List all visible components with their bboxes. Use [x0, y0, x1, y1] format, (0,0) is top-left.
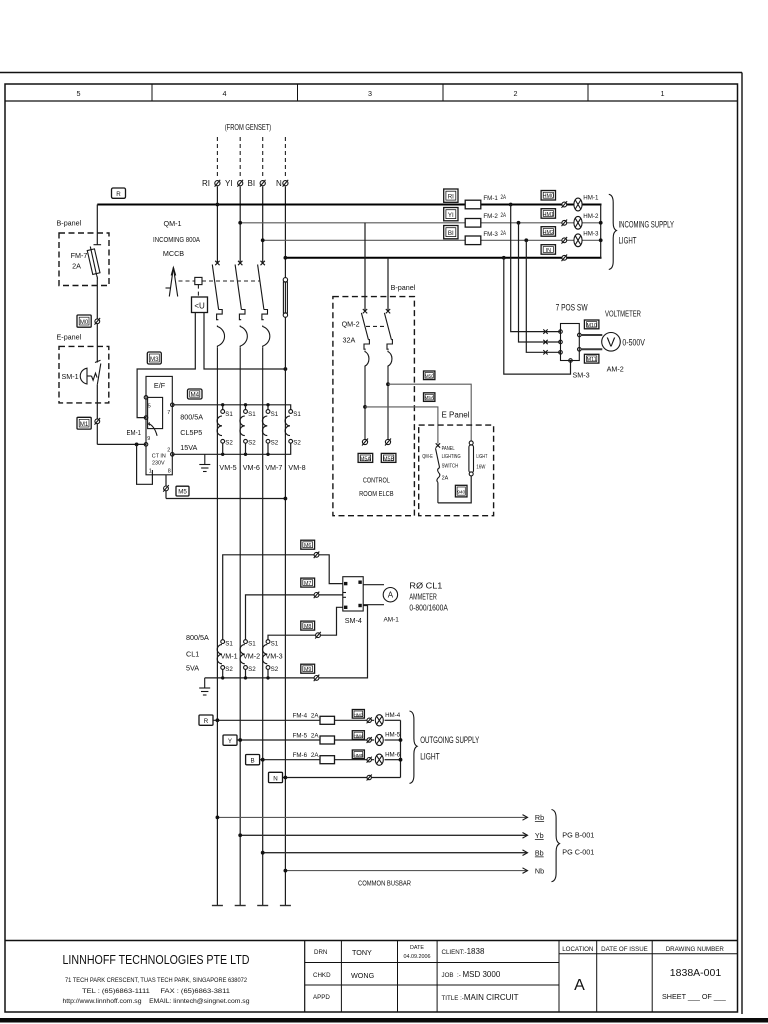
label INCOMING SUPPLY LIGHT	[619, 220, 675, 246]
wire busbar Yb	[240, 834, 527, 836]
wire S2 stub VM-3	[267, 669, 269, 678]
node connector on M7 wire	[314, 592, 320, 599]
svg-text:CT IN: CT IN	[152, 454, 166, 460]
svg-text:FM-7: FM-7	[71, 251, 88, 260]
svg-text:PANEL: PANEL	[442, 446, 455, 452]
svg-text:2: 2	[514, 89, 518, 98]
svg-text:TONY: TONY	[352, 948, 372, 957]
brace PG pages	[552, 810, 560, 882]
wire outgoing row Y after lamp	[385, 739, 401, 741]
svg-text:S2: S2	[225, 440, 233, 447]
svg-text:DRAWING NUMBER: DRAWING NUMBER	[666, 946, 725, 953]
voltmeter AM-2	[602, 333, 621, 352]
connector BI	[444, 226, 458, 239]
svg-text:M5A: M5A	[424, 395, 434, 400]
connector HM2	[541, 227, 555, 237]
svg-text:S1: S1	[248, 411, 256, 418]
wire outgoing row B after lamp	[385, 759, 401, 761]
connector HM4	[352, 731, 364, 740]
svg-text:ROOM ELCB: ROOM ELCB	[359, 489, 394, 498]
wire outgoing row N	[283, 777, 401, 779]
wire bus Y lamp out	[582, 222, 601, 224]
junction QM-2 pole1 switch branch	[363, 405, 367, 409]
ammeter AM-1	[383, 588, 397, 602]
svg-text:INCOMING SUPPLY: INCOMING SUPPLY	[619, 220, 675, 230]
relay EM-1 pin 1	[149, 469, 153, 475]
fuse FM-5	[320, 736, 335, 744]
wire light branch to E panel	[388, 384, 471, 441]
svg-text:RØ CL1: RØ CL1	[409, 582, 443, 591]
selector switch SM-4	[343, 577, 363, 611]
wire busbar Rb	[217, 816, 527, 818]
connector YI	[444, 208, 458, 221]
wire phase B upper	[262, 187, 264, 264]
svg-text:COMMON BUSBAR: COMMON BUSBAR	[358, 879, 411, 888]
node R connector box top left	[112, 188, 126, 198]
node connector on M8 wire	[315, 632, 321, 639]
svg-text:2A: 2A	[311, 713, 319, 720]
wire M8 from VM-3 S1 to SM-4	[268, 607, 343, 639]
junction return bus HM-2	[599, 221, 603, 225]
CT VM-1	[217, 640, 237, 673]
svg-text:HM1: HM1	[543, 212, 554, 218]
junction bus R phase R	[216, 203, 220, 207]
svg-text:YI: YI	[225, 179, 233, 188]
svg-text:S2: S2	[248, 666, 256, 673]
svg-text:AM-2: AM-2	[607, 365, 624, 374]
contact x feeder R	[543, 329, 547, 333]
breaker QM-2 pole 2	[384, 309, 392, 439]
junction S2 bus VM-2	[244, 676, 247, 679]
wire UV release right terminal to N	[204, 313, 285, 370]
svg-text:IN: IN	[546, 248, 551, 254]
svg-text:S1: S1	[271, 411, 279, 418]
junction row R phase R	[216, 718, 220, 722]
svg-text:OUTGOING SUPPLY: OUTGOING SUPPLY	[420, 735, 479, 745]
svg-text:FM-6: FM-6	[293, 752, 308, 759]
svg-text:SM-1: SM-1	[62, 372, 79, 381]
svg-text:FM-5: FM-5	[293, 733, 308, 740]
svg-text:LIGHT: LIGHT	[476, 454, 487, 460]
svg-text:5: 5	[148, 404, 151, 410]
wire switch branch to E panel	[365, 407, 438, 444]
junction busbar Nb phase N	[284, 869, 288, 873]
svg-text:HM-6: HM-6	[385, 751, 401, 758]
svg-text:PG B-001: PG B-001	[562, 831, 594, 840]
svg-text:S2: S2	[248, 440, 256, 447]
wire M5 to phase N	[166, 498, 285, 500]
wire outgoing row Y	[237, 739, 374, 741]
svg-text:LIGHTING: LIGHTING	[442, 454, 461, 460]
svg-text:RI: RI	[202, 179, 210, 188]
svg-text:VM-8: VM-8	[288, 463, 305, 472]
contact x feeder B	[543, 350, 547, 354]
svg-text:DATE: DATE	[410, 945, 424, 951]
connector M7	[301, 578, 315, 587]
svg-text:HM-4: HM-4	[385, 712, 401, 719]
svg-text:LINNHOFF TECHNOLOGIES PTE LTD: LINNHOFF TECHNOLOGIES PTE LTD	[63, 952, 250, 967]
svg-text:M5B: M5B	[383, 456, 394, 462]
node connector on bus N	[562, 255, 568, 262]
svg-text:R: R	[116, 191, 121, 198]
junction bus N phase N	[284, 256, 288, 260]
svg-text:FM-4: FM-4	[293, 713, 308, 720]
connector R outgoing	[199, 715, 213, 725]
wire phase R upper	[216, 187, 218, 264]
connector M5A	[358, 453, 373, 462]
lamp LIGHT 16W	[469, 441, 474, 476]
ground CT S2 bus lower	[199, 678, 210, 695]
node connector row N	[367, 775, 372, 781]
svg-text:LOCATION: LOCATION	[562, 946, 593, 953]
svg-text:TEL : (65)6863-1111 FAX :: TEL : (65)6863-1111 FAX : (65)6863-3811	[82, 988, 231, 995]
junction S1 bus VM-5	[221, 403, 224, 410]
svg-text:N: N	[276, 179, 282, 188]
relay EM-1 E/F box	[146, 376, 172, 474]
svg-text:1: 1	[661, 89, 665, 98]
breaker QM-1 shunt trip symbol	[166, 268, 178, 297]
wire FM-7 to SM-1	[96, 280, 98, 363]
svg-text:9: 9	[147, 436, 150, 442]
svg-text:M10: M10	[586, 323, 597, 329]
wire phase R long	[216, 405, 218, 906]
junction row B phase B	[261, 758, 265, 762]
wire dashed incoming B	[262, 137, 264, 176]
svg-text:Y: Y	[228, 738, 232, 745]
connector HM5	[352, 750, 364, 759]
label FM-5 2A	[293, 733, 320, 740]
svg-text:VM-1: VM-1	[221, 652, 238, 661]
wire bus N	[285, 257, 601, 259]
wire busbar Nb	[285, 870, 527, 872]
svg-text:VM-3: VM-3	[266, 652, 283, 661]
svg-text:N: N	[273, 775, 277, 782]
wire dashed incoming R	[216, 137, 218, 176]
wire voltmeter feeder R	[511, 205, 561, 332]
svg-text:S2: S2	[293, 440, 301, 447]
svg-text:VM-2: VM-2	[243, 652, 260, 661]
selector switch SM-3 box	[559, 324, 581, 363]
node YI	[225, 179, 243, 188]
wire voltmeter lead lower	[581, 348, 602, 350]
wire E panel bottom	[438, 476, 471, 503]
junction S2 bus VM-5	[221, 443, 224, 456]
connector M11	[584, 354, 599, 363]
svg-text:5: 5	[77, 89, 81, 98]
junction S2 bus VM-6	[244, 443, 247, 456]
breaker QM-1 pole R	[212, 261, 224, 405]
svg-text:1838A-001: 1838A-001	[670, 967, 722, 979]
wire ammeter lead upper	[363, 584, 384, 586]
contact x feeder Y	[543, 340, 547, 344]
svg-text:230V: 230V	[152, 461, 165, 467]
svg-text:2A: 2A	[311, 733, 319, 740]
svg-text:CL1: CL1	[186, 650, 199, 659]
fuse FM-2	[465, 212, 506, 227]
arrow Bb	[523, 849, 544, 858]
label CONTROL ROOM ELCB	[359, 476, 394, 499]
CT VM-5	[217, 410, 236, 472]
connector M10	[584, 320, 599, 329]
svg-text:M4: M4	[190, 392, 199, 399]
svg-text:HM-1: HM-1	[583, 195, 599, 202]
svg-text:HM0: HM0	[543, 194, 554, 200]
relay EM-1 pin 8	[166, 469, 171, 499]
brace outgoing supply light	[410, 711, 418, 783]
junction bus B phase B	[261, 238, 265, 242]
wire dashed incoming N	[284, 137, 286, 176]
svg-text:E/F: E/F	[154, 381, 166, 390]
connector HM1	[541, 209, 555, 219]
wire phase Y upper	[239, 187, 241, 264]
svg-text:JOB :- MSD 3000: JOB :- MSD 3000	[442, 970, 501, 979]
wire phase N mid	[284, 317, 286, 905]
node connector row Y	[367, 737, 372, 743]
wire S2 stub VM-2	[245, 669, 247, 678]
wire UV release left terminal / M3	[137, 313, 195, 418]
relay EM-1 pin 7	[167, 403, 174, 416]
label FM-4 2A	[293, 713, 320, 720]
panel E Panel enclosure	[419, 411, 494, 516]
wire lamp return bus	[600, 205, 602, 258]
wire M6 from VM-1 S1 to SM-4	[223, 555, 343, 640]
junction row Y phase Y	[238, 738, 242, 742]
lamp HM-5	[375, 732, 400, 746]
svg-text:Nb: Nb	[535, 866, 544, 875]
wire outgoing return bus	[400, 720, 402, 777]
lamp HM-2	[574, 213, 599, 229]
svg-text:2: 2	[167, 448, 170, 454]
wire busbar Bb	[263, 852, 527, 854]
panel E-panel enclosure	[57, 333, 109, 403]
terminal M5B of QM-2	[385, 439, 391, 446]
svg-text:S1: S1	[248, 641, 256, 648]
svg-text:4: 4	[147, 422, 150, 428]
svg-text:AM-1: AM-1	[384, 617, 400, 624]
CT VM-7	[262, 410, 282, 472]
breaker QM-1 linkage square	[195, 277, 202, 284]
node M1 connector on wire	[95, 418, 101, 425]
svg-text:B: B	[251, 758, 255, 765]
svg-text:7 POS SW: 7 POS SW	[556, 303, 588, 313]
svg-text:S1: S1	[225, 641, 233, 648]
svg-text:15VA: 15VA	[180, 443, 197, 452]
neutral link on phase N	[283, 278, 287, 318]
node connector row R	[367, 717, 372, 723]
breaker QM-1 pole B	[258, 261, 270, 405]
brace incoming supply light	[609, 194, 617, 269]
svg-text:SM-4: SM-4	[345, 616, 362, 625]
svg-text:SHEET ___ OF ___: SHEET ___ OF ___	[662, 992, 727, 1001]
junction busbar Yb phase Y	[238, 833, 242, 837]
svg-text:AMMETER: AMMETER	[409, 593, 437, 602]
wire outgoing row R after lamp	[385, 719, 401, 721]
svg-text:16W: 16W	[476, 464, 486, 470]
svg-text:HM4: HM4	[353, 734, 363, 740]
svg-text:Yb: Yb	[535, 831, 544, 840]
fuse FM-3	[465, 230, 506, 245]
busbar end B	[257, 905, 268, 907]
svg-text:M8: M8	[304, 624, 312, 630]
ground CT S2 bus upper	[199, 454, 210, 471]
connector M5	[176, 486, 189, 496]
fuse FM-4	[320, 716, 335, 724]
connector B outgoing	[246, 755, 260, 765]
wire outgoing row R	[213, 719, 374, 721]
junction busbar Bb phase B	[261, 851, 265, 855]
label 800/5A CL5P5 15VA	[180, 413, 203, 453]
svg-text:B-panel: B-panel	[57, 219, 82, 228]
node connector on bus R	[562, 201, 568, 208]
relay EM-1 pin 9	[144, 436, 150, 446]
connector M3	[147, 352, 161, 364]
breaker QM-1 trip linkage dashed	[179, 281, 260, 297]
svg-text:0-500V: 0-500V	[622, 337, 645, 347]
junction S2 bus VM-7	[266, 443, 269, 456]
connector M9	[301, 664, 315, 673]
svg-text:S2: S2	[225, 666, 233, 673]
terminal M5A of QM-2	[362, 439, 368, 446]
svg-text:M5A: M5A	[360, 456, 371, 462]
svg-text:M11: M11	[587, 357, 597, 363]
svg-text:2A: 2A	[501, 230, 507, 237]
svg-text:FM-3: FM-3	[483, 231, 498, 238]
svg-text:M50: M50	[425, 373, 434, 378]
arrow Rb	[523, 813, 545, 822]
CT VM-6	[240, 410, 260, 472]
junction outgoing return HM-5	[399, 738, 403, 742]
svg-text:M5: M5	[178, 489, 187, 496]
junction outgoing return HM-6	[399, 758, 403, 762]
wire voltmeter feeder Y	[519, 223, 561, 342]
node connector on M6 wire	[314, 552, 320, 559]
svg-text:HM2: HM2	[543, 230, 554, 236]
svg-text:RI: RI	[448, 193, 454, 200]
svg-text:2A: 2A	[501, 194, 507, 201]
junction EM-1 wire pin1 branch	[135, 443, 139, 447]
svg-text:QM-1: QM-1	[164, 219, 182, 228]
wire phase B long	[262, 405, 264, 906]
svg-text:M1: M1	[80, 421, 89, 428]
wire CT S2 bus	[172, 443, 290, 454]
svg-text:Rb: Rb	[535, 813, 544, 822]
svg-text:4: 4	[223, 89, 227, 98]
node M0 connector on wire	[95, 318, 101, 325]
wire bus B lamp out	[582, 239, 601, 241]
lamp HM-1	[574, 195, 599, 211]
svg-text:<U: <U	[194, 302, 205, 311]
wire ammeter lead lower	[363, 604, 384, 606]
relay EM-1 pin 4	[144, 416, 150, 428]
breaker QM-1 pole Y	[235, 261, 247, 405]
svg-text:YI: YI	[448, 212, 454, 219]
svg-text:M6: M6	[304, 543, 312, 549]
svg-text:LIGHT: LIGHT	[619, 236, 637, 246]
breaker QM-2 linkage dashed	[366, 325, 387, 327]
wire QM-2 feeder from bus Y	[364, 223, 366, 311]
junction QM-2 pole2 light branch	[386, 382, 390, 386]
connector M50	[424, 371, 435, 380]
svg-text:7: 7	[167, 410, 170, 416]
wire bus R	[97, 204, 574, 206]
svg-text:S1: S1	[225, 411, 233, 418]
wire B-panel feeder drop	[96, 205, 98, 245]
svg-text:(FROM GENSET): (FROM GENSET)	[225, 123, 272, 132]
svg-text:M3: M3	[150, 356, 159, 363]
svg-text:HM-2: HM-2	[583, 213, 599, 220]
label LIGHT 16W	[476, 454, 487, 471]
label PANEL LIGHTING SWITCH 2A	[442, 446, 461, 482]
wire outgoing row B	[260, 759, 374, 761]
svg-text:S1: S1	[293, 411, 301, 418]
label CT IN 230V	[152, 454, 166, 467]
svg-text:3: 3	[368, 89, 372, 98]
connector HM0	[541, 191, 555, 201]
svg-text:FM-2: FM-2	[483, 213, 498, 220]
lamp HM-4	[375, 712, 400, 726]
junction busbar Rb phase R	[216, 816, 220, 820]
wire S2 stub VM-1	[222, 669, 224, 678]
svg-text:VOLTMETER: VOLTMETER	[605, 310, 641, 319]
svg-text:HM3: HM3	[353, 712, 363, 718]
svg-text:2A: 2A	[72, 262, 81, 271]
svg-text:S2: S2	[271, 666, 279, 673]
svg-text:71 TECH PARK CRESCENT, TUAS TE: 71 TECH PARK CRESCENT, TUAS TECH PARK, S…	[65, 977, 247, 984]
label 800/5A CL1 5VA	[186, 633, 209, 673]
junction S2 bus VM-3	[266, 676, 269, 679]
CT VM-3	[263, 640, 283, 673]
svg-text:800/5A: 800/5A	[186, 633, 209, 642]
connector HM3	[352, 710, 364, 719]
connector M4	[188, 389, 203, 399]
svg-text:CL5P5: CL5P5	[180, 428, 202, 437]
wire M9 S2 bus	[205, 606, 368, 678]
label R0 CL1 AMMETER 0-800/1600A	[409, 582, 448, 613]
label OUTGOING SUPPLY LIGHT	[420, 735, 479, 762]
connector M1	[77, 417, 91, 429]
svg-text:940: 940	[457, 490, 465, 496]
svg-text:SM-3: SM-3	[573, 371, 590, 380]
svg-text:B-panel: B-panel	[391, 283, 416, 292]
connector M8	[301, 621, 315, 630]
svg-text:CLIENT:-1838: CLIENT:-1838	[442, 947, 485, 956]
wire EM-1 to relay pin 9	[97, 443, 146, 445]
wire phase N upper	[284, 187, 286, 278]
wire dashed incoming Y	[239, 137, 241, 176]
wire M7 from VM-2 S1 to SM-4	[246, 595, 343, 640]
node connector row B	[367, 757, 372, 763]
node BI	[248, 179, 266, 188]
svg-text:M0: M0	[80, 319, 89, 326]
svg-text:PG C-001: PG C-001	[562, 848, 594, 857]
fuse FM-7	[87, 245, 101, 280]
svg-text:WONG: WONG	[351, 971, 375, 980]
node N	[276, 179, 288, 188]
svg-text:1: 1	[149, 469, 152, 475]
svg-text:E Panel: E Panel	[442, 411, 470, 420]
junction voltmeter tap N	[502, 256, 506, 260]
connector IN	[541, 245, 555, 255]
svg-text:E-panel: E-panel	[57, 333, 82, 342]
fuse FM-1	[465, 194, 506, 209]
svg-text:BI: BI	[248, 179, 256, 188]
svg-text:CONTROL: CONTROL	[363, 476, 390, 485]
junction row N phase N	[284, 776, 288, 780]
junction return bus HM-3	[599, 238, 603, 242]
svg-text:8: 8	[168, 469, 171, 475]
busbar end Y	[235, 905, 246, 907]
junction S1 bus VM-6	[244, 403, 247, 410]
